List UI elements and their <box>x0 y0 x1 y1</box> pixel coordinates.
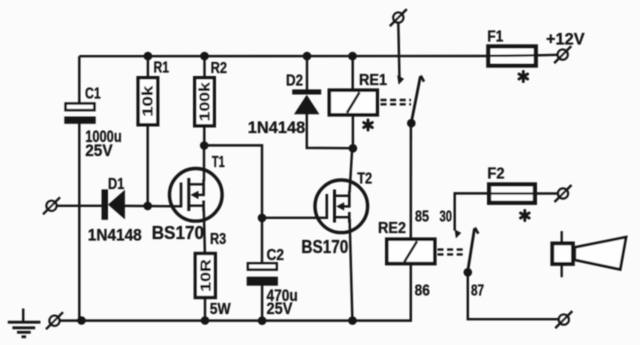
svg-text:86: 86 <box>415 283 430 300</box>
svg-text:85: 85 <box>415 208 429 225</box>
wire RE1 coil bottom lead <box>352 116 354 148</box>
wire bottom ground rail <box>60 319 412 321</box>
transistor T1 BS170 <box>152 154 225 243</box>
wire F2 left to contact 30 <box>455 193 488 230</box>
wire RE1 coil top lead <box>351 56 353 89</box>
svg-text:R3: R3 <box>210 231 226 248</box>
wire R2 top lead <box>203 56 205 77</box>
ground symbol <box>8 309 41 337</box>
svg-text:1N4148: 1N4148 <box>88 226 142 245</box>
horn / siren <box>552 231 626 277</box>
node dot bottom rail left vertical <box>77 316 86 325</box>
svg-text:T2: T2 <box>357 171 372 188</box>
switch RE2 fixed contact 30 <box>455 229 462 238</box>
svg-text:87: 87 <box>471 283 484 300</box>
wire R3 bottom lead <box>204 298 206 321</box>
svg-text:1N4148: 1N4148 <box>248 118 305 137</box>
wire fuse F1 through-line <box>487 54 539 57</box>
wire input terminal to D1 <box>57 205 103 207</box>
switch RE2 pivot dot <box>464 268 473 277</box>
svg-text:F1: F1 <box>487 28 503 45</box>
svg-text:R1: R1 <box>154 60 170 77</box>
wire T2 gate <box>262 217 327 219</box>
relay coil RE1 <box>329 72 387 115</box>
wire top rail <box>79 55 486 58</box>
terminal +12V <box>554 46 571 63</box>
node dot D2 top <box>303 52 312 61</box>
resistor R2 <box>195 60 227 126</box>
svg-text:25V: 25V <box>267 299 294 318</box>
svg-text:D1: D1 <box>108 176 124 193</box>
wire R2 bottom lead <box>203 127 205 146</box>
svg-text:D2: D2 <box>286 73 303 90</box>
svg-text:C2: C2 <box>267 247 285 264</box>
svg-text:100k: 100k <box>196 82 213 122</box>
wire T1 source to R3 <box>204 210 205 253</box>
wire T1-drain node to C2/T2-gate node <box>204 145 262 263</box>
svg-text:BS170: BS170 <box>152 223 204 243</box>
wire T2 source <box>350 219 353 321</box>
fuse F1 <box>487 28 536 65</box>
svg-text:RE1: RE1 <box>359 72 387 89</box>
mechanical link RE1 (double dashed) <box>381 100 412 104</box>
wire RE2 output 87 to bottom-right terminal <box>468 275 559 320</box>
wire RE1 pivot to RE2 coil <box>410 125 413 239</box>
switch RE1 blade <box>411 76 420 122</box>
fuse F2 <box>487 166 535 203</box>
svg-text:+12V: +12V <box>546 29 585 48</box>
resistor R1 <box>138 60 169 125</box>
node dot RE1 coil top <box>348 52 357 61</box>
terminal bottom left ground <box>46 312 63 329</box>
node dot bottom rail C2 <box>258 316 267 325</box>
relay coil RE2 <box>378 220 435 264</box>
asterisk RE1 <box>364 120 373 130</box>
node dot R1 top <box>144 52 153 61</box>
terminal bottom right output <box>555 311 572 328</box>
node dot bottom rail R3 <box>201 316 210 325</box>
terminal F2 output <box>555 185 572 202</box>
node dot T1 gate / R1 <box>143 202 152 211</box>
transistor T2 BS170 <box>301 171 372 257</box>
terminal D1 input <box>43 197 60 214</box>
wire RE1 switch input from top terminal <box>398 23 399 81</box>
svg-text:R2: R2 <box>211 60 227 77</box>
diode D1 <box>88 176 142 245</box>
wire D2 top lead <box>306 56 308 90</box>
svg-text:25V: 25V <box>85 141 113 160</box>
wire C2 bottom lead <box>261 285 263 321</box>
switch RE2 blade <box>468 229 475 271</box>
svg-text:C1: C1 <box>85 85 101 102</box>
diode D2 <box>248 73 321 137</box>
wire F1 to +12V terminal <box>538 54 558 57</box>
wire R1 top lead <box>147 56 149 77</box>
svg-text:10R: 10R <box>197 259 214 292</box>
svg-text:5W: 5W <box>210 301 232 318</box>
wire R1 bottom lead <box>146 126 148 207</box>
wire D2 bottom lead <box>307 114 353 149</box>
svg-text:BS170: BS170 <box>301 237 348 257</box>
capacitor C1 <box>64 85 121 160</box>
svg-text:30: 30 <box>440 209 453 226</box>
wire F2 right to terminal <box>537 192 558 194</box>
wire T1 drain <box>203 146 205 182</box>
svg-text:10k: 10k <box>140 85 157 117</box>
switch RE1 pivot dot <box>407 119 416 128</box>
mechanical link RE2 (double dashed) <box>438 250 467 255</box>
wire left vertical lower (C1 to bottom rail) <box>78 123 80 321</box>
svg-text:RE2: RE2 <box>378 220 406 237</box>
node dot R2 top <box>200 52 209 61</box>
wire D1 to T1 gate <box>125 205 182 208</box>
asterisk F2 <box>521 211 530 221</box>
switch RE1 fixed contact <box>397 75 404 84</box>
svg-text:T1: T1 <box>212 154 225 171</box>
node dot bottom rail T2 source <box>348 316 357 325</box>
capacitor C2 <box>247 247 298 318</box>
node dot T2 gate / C2 <box>258 214 267 223</box>
wire T2 drain <box>350 148 353 192</box>
node dot R2 bottom / T1 drain <box>200 141 209 150</box>
svg-text:F2: F2 <box>487 166 504 183</box>
terminal top RE1 switch <box>390 9 407 26</box>
asterisk F1 <box>519 72 528 82</box>
node dot RE1 coil bottom / T2 drain <box>349 144 358 153</box>
resistor R3 <box>195 231 231 318</box>
wire RE2 coil bottom to bottom rail <box>410 264 412 321</box>
wire left vertical upper (top rail to C1) <box>78 56 80 103</box>
